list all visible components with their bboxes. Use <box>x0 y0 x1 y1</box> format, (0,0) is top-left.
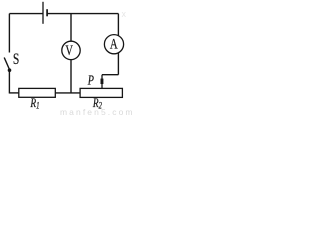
svg-text:x: x <box>122 9 127 19</box>
resistor R1 box <box>19 88 56 97</box>
voltmeter bottom lead <box>70 60 72 94</box>
wire left vertical upper (to switch) <box>8 14 10 53</box>
svg-text:P: P <box>87 72 94 88</box>
battery long plate (positive) <box>42 2 44 24</box>
voltmeter U-V circle <box>62 41 80 59</box>
wire step left toward slider <box>102 74 118 76</box>
wire bottom-left horizontal <box>9 92 18 94</box>
svg-text:S: S <box>13 51 19 68</box>
svg-text:A: A <box>110 35 118 52</box>
svg-text:manfen5.com: manfen5.com <box>60 107 135 117</box>
wire ammeter bottom lead down <box>117 53 119 75</box>
battery short plate (negative) <box>46 9 48 16</box>
wire right vertical down to ammeter <box>117 14 119 36</box>
wire slider stem down <box>101 75 103 89</box>
background <box>0 0 135 117</box>
switch S lever <box>4 58 9 70</box>
wire top-left horizontal (battery left lead) <box>9 13 43 15</box>
svg-text:V: V <box>65 42 73 58</box>
wire left vertical lower <box>8 71 10 94</box>
ammeter U-A circle <box>104 35 123 54</box>
switch S pivot dot <box>8 68 12 72</box>
voltmeter top lead <box>70 14 72 42</box>
wire top horizontal right of battery <box>47 13 118 15</box>
resistor R2 box (rheostat) <box>80 88 122 97</box>
slider handle of rheostat <box>101 79 104 84</box>
wire between R1 and R2 <box>55 92 80 94</box>
